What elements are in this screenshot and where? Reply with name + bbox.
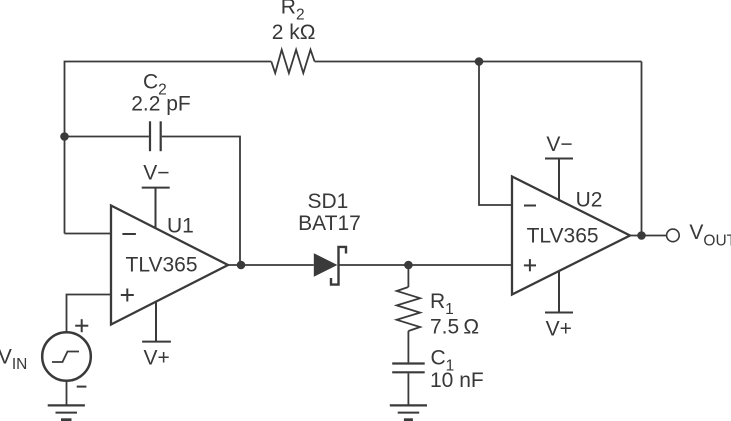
wire C1 to ground	[407, 373, 409, 405]
source VIN slew waveform symbol	[52, 352, 79, 363]
wire diode to R1 node	[339, 264, 409, 266]
svg-text:V+: V+	[546, 318, 572, 341]
node junction dot top feedback	[475, 57, 484, 66]
wire R1 node to U2 noninverting input	[408, 264, 512, 266]
U1 minus input symbol	[122, 233, 135, 235]
U1 V+ power pin	[142, 301, 171, 342]
U2 minus input symbol	[524, 205, 536, 207]
capacitor C2	[150, 121, 161, 151]
node junction dot C2 tap	[60, 132, 69, 141]
U1 V- power pin	[142, 188, 170, 229]
svg-text:V−: V−	[546, 133, 572, 156]
svg-text:10 nF: 10 nF	[430, 369, 484, 392]
U2 V+ power pin	[545, 271, 573, 313]
svg-text:7.5 Ω: 7.5 Ω	[430, 315, 479, 338]
wire U1 output to diode	[228, 264, 314, 266]
wire U2 output	[630, 235, 667, 237]
resistor R1	[397, 287, 420, 331]
ground below VIN	[48, 405, 85, 419]
capacitor C1	[392, 364, 425, 373]
U2 V- power pin	[545, 159, 573, 202]
svg-text:TLV365: TLV365	[527, 224, 599, 247]
op-amp U2	[512, 177, 630, 295]
wire R1 to C1	[407, 331, 409, 362]
wire node down to R1	[407, 265, 409, 287]
svg-text:U1: U1	[167, 215, 194, 238]
U2 plus input symbol	[524, 259, 536, 271]
wire top feedback right segment	[315, 61, 642, 63]
ground below C1	[390, 405, 427, 419]
wire top feedback left segment	[65, 62, 272, 234]
wire right vertical to U2 output	[641, 62, 643, 236]
source VIN plus polarity mark	[75, 319, 88, 332]
wire C2 left	[65, 136, 149, 138]
node junction dot U2 output	[637, 231, 646, 240]
svg-text:V+: V+	[144, 346, 170, 369]
node junction dot R1 tap	[404, 261, 413, 270]
wire U1 noninverting input	[67, 295, 112, 333]
resistor R2	[271, 50, 314, 73]
diode SD1 schottky cathode bar	[331, 247, 346, 285]
svg-text:2.2 pF: 2.2 pF	[131, 92, 191, 115]
source VIN minus polarity mark	[77, 386, 87, 388]
op-amp U1	[111, 206, 228, 325]
wire C2 right	[162, 137, 240, 266]
source VIN circle	[42, 332, 91, 381]
diode SD1 anode triangle	[314, 253, 338, 277]
svg-text:SD1: SD1	[307, 190, 348, 213]
wire VIN to ground	[66, 381, 68, 406]
svg-text:V−: V−	[143, 162, 169, 185]
svg-text:TLV365: TLV365	[126, 253, 198, 276]
wire U1 inverting input	[65, 233, 112, 235]
svg-text:BAT17: BAT17	[298, 212, 361, 235]
node junction dot U1 output	[237, 261, 246, 270]
wire from top node down to U2 inverting input	[479, 62, 512, 206]
svg-text:U2: U2	[576, 189, 603, 212]
svg-text:2 kΩ: 2 kΩ	[272, 21, 316, 44]
U1 plus input symbol	[121, 289, 134, 302]
output terminal circle	[667, 229, 680, 242]
